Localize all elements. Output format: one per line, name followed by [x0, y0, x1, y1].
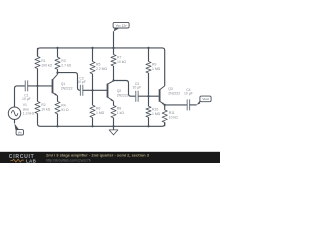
- resistor R3: [55, 48, 72, 73]
- svg-text:1 MΩ: 1 MΩ: [96, 111, 105, 115]
- junction top rail junction 1: [56, 47, 58, 49]
- svg-text:R6: R6: [96, 107, 100, 111]
- svg-text:Vout: Vout: [202, 97, 208, 101]
- svg-text:10 µF: 10 µF: [77, 80, 86, 84]
- resistor R4: [55, 96, 69, 127]
- ground: [109, 126, 118, 135]
- junction bottom rail junction 4: [147, 125, 149, 127]
- svg-text:10 µF: 10 µF: [22, 97, 31, 101]
- wire ground rail: [38, 114, 165, 127]
- capacitor C4: [184, 88, 193, 111]
- footer bar: [0, 152, 220, 163]
- svg-text:R8: R8: [117, 107, 121, 111]
- svg-text:R11: R11: [169, 111, 175, 115]
- svg-text:R4: R4: [61, 104, 65, 108]
- svg-text:10 kΩ: 10 kΩ: [41, 108, 50, 112]
- resistor R1: [35, 48, 53, 86]
- svg-text:Q2: Q2: [117, 89, 122, 93]
- junction top rail junction 4: [147, 47, 149, 49]
- capacitor C2: [77, 76, 86, 95]
- wire stage2 collector to C3: [114, 81, 136, 97]
- junction bottom rail junction 1: [56, 125, 58, 127]
- capacitor C1: [22, 80, 31, 101]
- svg-text:1 MΩ: 1 MΩ: [152, 67, 161, 71]
- svg-text:100 kΩ: 100 kΩ: [41, 63, 52, 67]
- svg-text:Q1: Q1: [61, 82, 66, 86]
- svg-text:2N2222: 2N2222: [61, 87, 73, 91]
- svg-text:2.7 kΩ: 2.7 kΩ: [61, 64, 71, 68]
- wire C2 to Q2 base: [83, 89, 107, 91]
- svg-text:Vin: Vin: [18, 130, 23, 134]
- junction base node 3: [147, 95, 149, 97]
- junction bottom rail junction 3: [112, 125, 114, 127]
- svg-text:1 MΩ: 1 MΩ: [152, 112, 161, 116]
- junction base node 1: [36, 85, 38, 87]
- resistor R9: [146, 48, 161, 96]
- svg-text:R3: R3: [61, 59, 65, 63]
- resistor R7: [111, 48, 127, 81]
- CircuitLab logo: [9, 154, 37, 164]
- svg-text:2N2222: 2N2222: [117, 94, 129, 98]
- svg-text:2mi / 3 stage amplifier - 2nd: 2mi / 3 stage amplifier - 2nd quarter - …: [46, 153, 150, 158]
- svg-text:R9: R9: [152, 62, 156, 66]
- wire Q3 emitter to C4: [165, 104, 188, 106]
- wire C3 to Q3 base: [138, 95, 159, 97]
- svg-text:10 kΩ: 10 kΩ: [169, 115, 178, 119]
- transistor Q3: [160, 86, 181, 105]
- svg-text:2.2 MΩ: 2.2 MΩ: [96, 67, 107, 71]
- capacitor C3: [133, 82, 142, 102]
- resistor R2: [35, 86, 51, 114]
- resistor R11: [162, 105, 178, 126]
- node label Vin: [14, 123, 23, 135]
- wire C1 to Q1 base: [28, 85, 52, 87]
- svg-text:R7: R7: [117, 56, 121, 60]
- junction emitter node 3: [164, 104, 166, 106]
- svg-text:R10: R10: [152, 108, 158, 112]
- junction collector node 2: [112, 79, 114, 81]
- svg-text:10 µF: 10 µF: [184, 92, 193, 96]
- junction base node 2: [91, 89, 93, 91]
- svg-text:2N2222: 2N2222: [168, 92, 180, 96]
- node label Vout: [197, 96, 211, 105]
- junction top rail junction 3: [112, 47, 114, 49]
- svg-text:10 µF: 10 µF: [133, 85, 142, 89]
- transistor Q1: [53, 74, 73, 95]
- svg-text:10 kΩ: 10 kΩ: [117, 60, 126, 64]
- svg-text:91 Ω: 91 Ω: [61, 108, 69, 112]
- junction top rail junction 2: [91, 47, 93, 49]
- source V1: [8, 86, 34, 120]
- wire Vcc top rail: [38, 48, 165, 86]
- svg-text:R2: R2: [41, 103, 45, 107]
- junction bottom rail junction 2: [91, 125, 93, 127]
- node label Vcc: [113, 22, 129, 31]
- wire stage1 collector to C2: [58, 73, 81, 91]
- svg-text:1.2 kHz: 1.2 kHz: [23, 112, 35, 116]
- svg-text:LAB: LAB: [26, 159, 37, 164]
- svg-text:R1: R1: [41, 59, 45, 63]
- resistor R8: [111, 101, 124, 126]
- transistor Q2: [108, 81, 129, 101]
- resistor R5: [90, 48, 108, 90]
- svg-text:Vcc 12v: Vcc 12v: [116, 23, 127, 27]
- wire Q1 collector stub: [57, 73, 59, 75]
- wire C4 to Vout: [190, 104, 197, 106]
- svg-text:http://circuitlab.com/c2wzc7b: http://circuitlab.com/c2wzc7b: [46, 158, 91, 162]
- wire V1 to Vin stub: [14, 119, 16, 123]
- resistor R6: [90, 90, 105, 126]
- junction collector node 1: [56, 72, 58, 74]
- resistor R10: [146, 96, 161, 126]
- svg-text:Q3: Q3: [168, 87, 173, 91]
- svg-text:1 kΩ: 1 kΩ: [117, 111, 125, 115]
- wire Vcc feed wire: [113, 31, 115, 48]
- svg-text:R5: R5: [96, 63, 100, 67]
